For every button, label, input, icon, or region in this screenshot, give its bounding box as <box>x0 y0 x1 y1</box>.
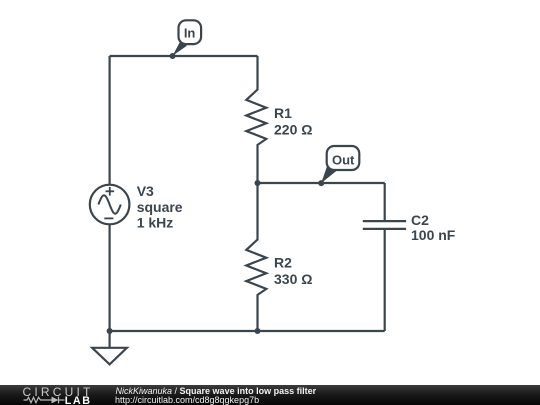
resistor R1 <box>246 56 266 183</box>
svg-text:220 Ω: 220 Ω <box>274 122 312 138</box>
junction dot at R2 bottom <box>255 328 261 334</box>
wire bottom ground rail <box>110 330 385 332</box>
svg-text:In: In <box>184 26 196 41</box>
ground <box>92 331 127 364</box>
svg-text:Out: Out <box>332 152 355 167</box>
svg-text:square: square <box>137 199 183 215</box>
svg-text:1 kHz: 1 kHz <box>137 215 174 231</box>
svg-text:LAB: LAB <box>65 395 92 405</box>
junction dot at R1/R2/Out node <box>255 180 261 186</box>
CircuitLab logo resistor-diode symbol <box>24 397 65 404</box>
svg-text:C2: C2 <box>411 212 429 228</box>
wire V3 bottom to ground rail <box>108 224 110 331</box>
capacitor C2 <box>363 183 406 331</box>
junction dot at In tap <box>170 53 176 59</box>
CircuitLab logo wordmark <box>23 385 94 405</box>
wire left vertical from top to V3 <box>108 56 110 185</box>
node Out flag box <box>321 146 359 183</box>
svg-text:100 nF: 100 nF <box>411 227 456 243</box>
svg-text:R2: R2 <box>274 254 292 270</box>
wire top horizontal In net <box>110 55 258 57</box>
svg-text:330 Ω: 330 Ω <box>274 271 312 287</box>
voltage source V3 <box>90 185 130 225</box>
svg-text:V3: V3 <box>137 183 154 199</box>
wire middle horizontal Out net <box>258 182 385 184</box>
junction dot at ground node <box>107 328 113 334</box>
node In flag box <box>173 20 202 55</box>
junction dot at Out tap <box>318 180 324 186</box>
footer bar <box>0 385 540 405</box>
svg-text:http://circuitlab.com/cd8g8qgk: http://circuitlab.com/cd8g8qgkepg7b <box>115 395 259 405</box>
svg-text:R1: R1 <box>274 105 292 121</box>
resistor R2 <box>246 183 266 331</box>
